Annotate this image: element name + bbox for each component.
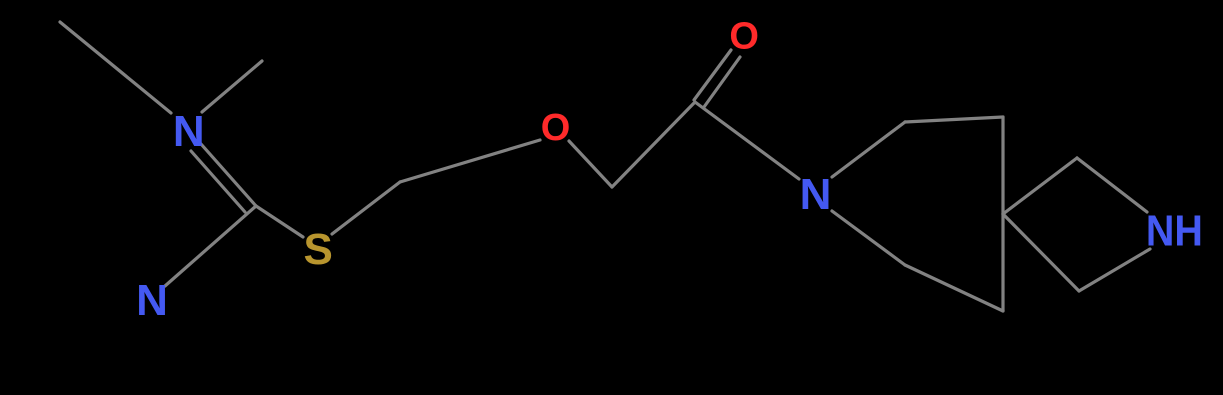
wire CM-CCO xyxy=(612,102,695,187)
wire Vb-P2 xyxy=(905,265,1003,311)
wire N1=W double inner xyxy=(191,151,245,212)
wire N1=W double outer xyxy=(201,144,256,206)
wire N2-W xyxy=(165,206,256,286)
wire N1 ethyl stub xyxy=(60,22,171,113)
svg-text:N: N xyxy=(136,276,168,325)
svg-text:NH: NH xyxy=(1146,206,1203,255)
wire N3-P1 xyxy=(832,122,905,177)
svg-text:O: O xyxy=(541,107,571,149)
wire S-CH2 xyxy=(332,182,400,234)
svg-text:N: N xyxy=(800,170,832,219)
wire CH2-O xyxy=(400,140,540,182)
wire SP-Vb xyxy=(1001,214,1004,311)
svg-text:N: N xyxy=(173,107,205,156)
wire Vt-SP xyxy=(1001,117,1004,214)
wire NH-Q2 xyxy=(1079,249,1150,291)
wire O-CM xyxy=(569,141,612,187)
wire Q1-NH xyxy=(1077,158,1147,212)
wire P1-Vt xyxy=(905,117,1003,122)
wire Q2-SP xyxy=(1003,214,1079,291)
wire CCO-N3 xyxy=(695,102,799,179)
wire W-S xyxy=(256,206,303,237)
svg-text:O: O xyxy=(729,15,759,57)
carbonyl C=O xyxy=(694,50,731,100)
wire N1 methyl stub xyxy=(202,61,262,112)
wire SP-Q1 xyxy=(1003,158,1077,214)
wire P2-N3 xyxy=(832,211,905,265)
svg-text:S: S xyxy=(304,225,333,274)
